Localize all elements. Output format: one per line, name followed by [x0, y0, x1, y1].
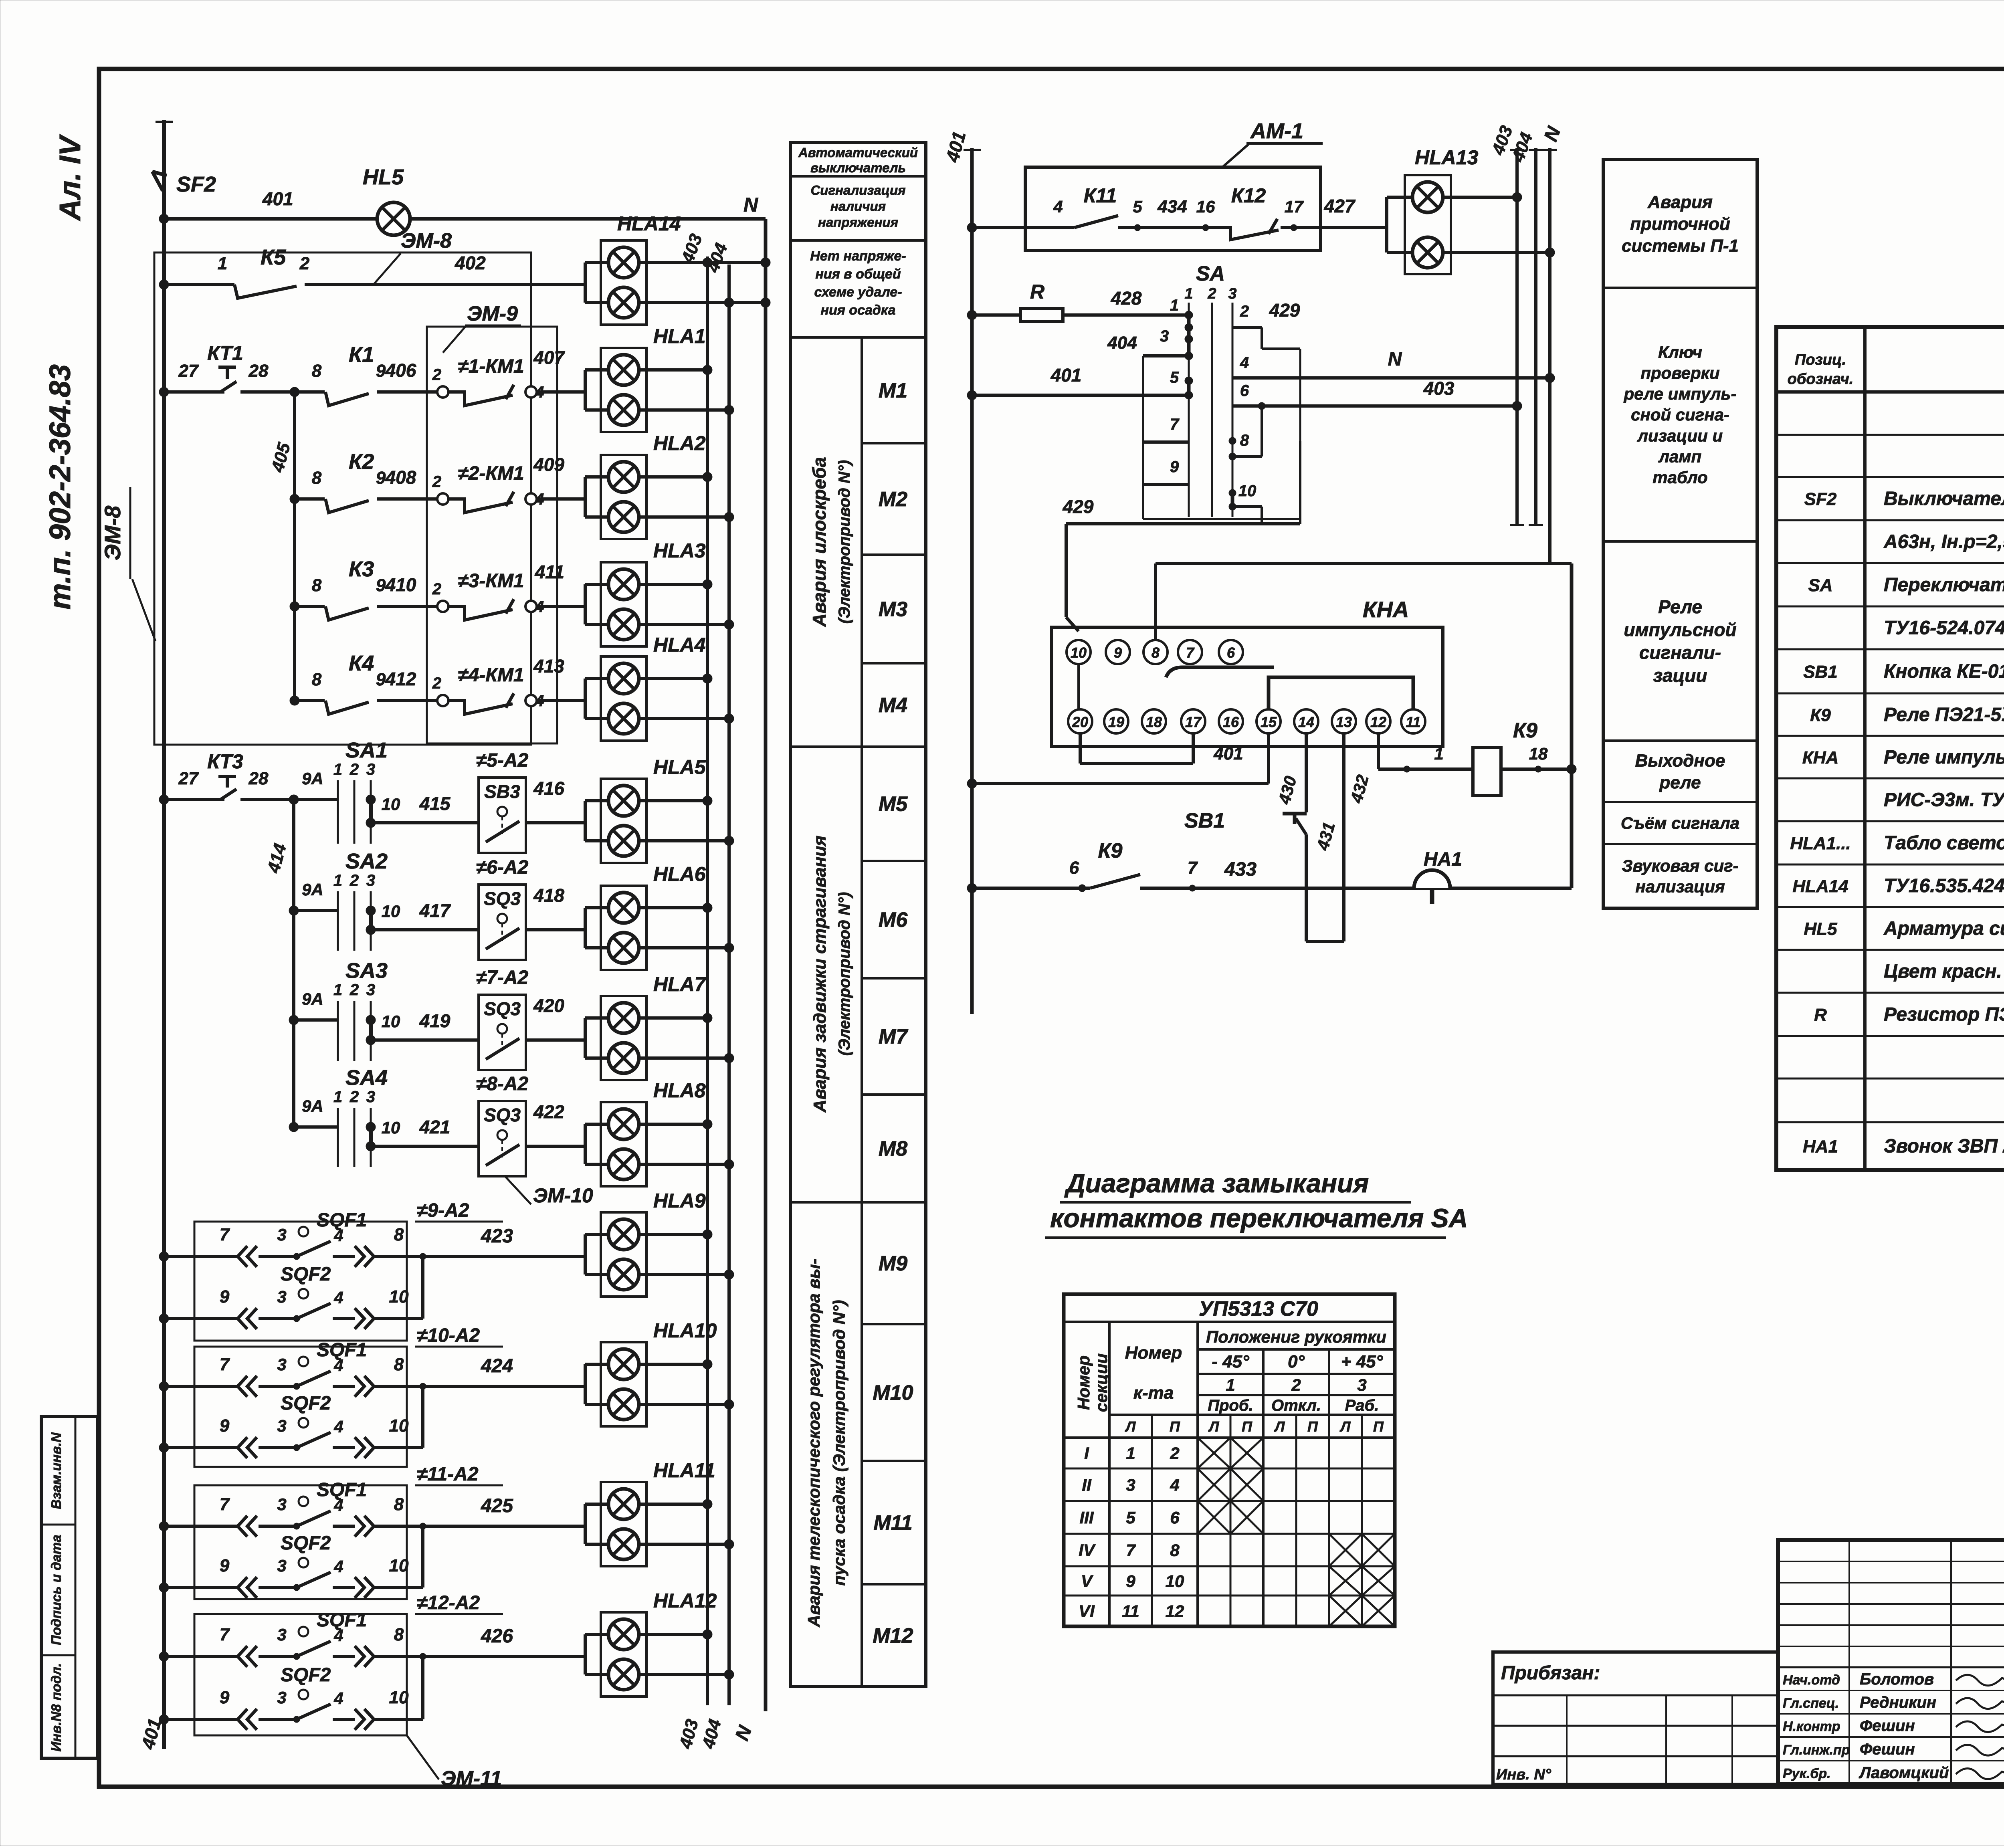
vertical N bus left section [764, 219, 768, 1711]
box AM-1 [1025, 167, 1321, 250]
wires to 403/404 [639, 475, 707, 479]
svg-text:проверки: проверки [1640, 364, 1719, 382]
wires to 403/404 [639, 1503, 707, 1506]
vertical 414 feeder [292, 800, 295, 1127]
svg-text:К9: К9 [1513, 719, 1537, 742]
SA surround box [1142, 485, 1144, 519]
svg-text:Рук.бр.: Рук.бр. [1783, 1766, 1831, 1781]
svg-text:Сигнализация: Сигнализация [810, 183, 905, 198]
svg-text:1: 1 [333, 872, 342, 889]
svg-text:П: П [1170, 1418, 1180, 1435]
KHA pin 14 [1294, 709, 1318, 733]
svg-text:6: 6 [1170, 1508, 1180, 1527]
svg-text:К9: К9 [1810, 705, 1831, 725]
svg-text:Лавомцкий: Лавомцкий [1859, 1764, 1949, 1782]
svg-text:К2: К2 [349, 450, 374, 474]
svg-text:4: 4 [333, 1626, 343, 1645]
svg-text:9: 9 [376, 670, 386, 689]
svg-text:АМ-1: АМ-1 [1250, 119, 1303, 143]
svg-text:Звонок ЗВП 220 ТУ16-739.0: Звонок ЗВП 220 ТУ16-739.059-76 [1884, 1136, 2004, 1157]
selector switch SA2 [289, 906, 299, 915]
switch SQF1 row [159, 1652, 169, 1661]
svg-text:16: 16 [1196, 197, 1215, 216]
svg-text:контактов переключателя SА: контактов переключателя SА [1050, 1203, 1468, 1233]
wires to 403/404 [639, 906, 707, 909]
svg-text:Ал. IV: Ал. IV [53, 134, 87, 221]
svg-text:2: 2 [349, 981, 359, 999]
svg-text:406: 406 [385, 360, 416, 381]
svg-text:Цвет красн. ТУ 16.535.417-75: Цвет красн. ТУ 16.535.417-75 [1884, 961, 2004, 982]
vertical 403 line left section [706, 256, 709, 1705]
X marks [1198, 1438, 1230, 1468]
svg-text:SQ3: SQ3 [484, 1105, 521, 1125]
svg-text:3: 3 [277, 1495, 286, 1514]
svg-text:Проб.: Проб. [1208, 1397, 1253, 1414]
wire 424 [423, 1385, 585, 1388]
indicator panel HLA7 [601, 996, 646, 1080]
svg-text:Инв. N°: Инв. N° [1496, 1766, 1551, 1783]
svg-text:SF2: SF2 [176, 172, 216, 196]
lamp top HLA3 [584, 584, 587, 624]
svg-text:3: 3 [277, 1625, 286, 1644]
svg-text:429: 429 [1269, 300, 1300, 321]
svg-text:К11: К11 [1084, 184, 1117, 207]
svg-text:434: 434 [1157, 197, 1187, 216]
svg-text:427: 427 [1324, 196, 1356, 216]
svg-text:КНА: КНА [1363, 597, 1409, 622]
svg-text:433: 433 [1224, 859, 1257, 880]
svg-text:обознач.: обознач. [1788, 371, 1854, 388]
travel switch group ≠10-А2 [194, 1347, 407, 1467]
svg-text:HLA8: HLA8 [653, 1079, 706, 1102]
time relay contact KT1 [159, 387, 169, 397]
switch SQF2 row [159, 1314, 169, 1323]
svg-text:Л: Л [1125, 1418, 1136, 1435]
bell HA1 [1414, 870, 1450, 888]
svg-text:1: 1 [218, 254, 227, 273]
svg-text:2: 2 [432, 473, 441, 491]
svg-text:412: 412 [385, 669, 416, 689]
svg-text:П: П [1373, 1418, 1384, 1435]
svg-text:10: 10 [389, 1287, 409, 1307]
svg-text:SQ3: SQ3 [484, 998, 521, 1019]
switch SQF2 row [159, 1583, 169, 1592]
wires to 403/404 [639, 1123, 707, 1126]
svg-text:7: 7 [1170, 416, 1180, 433]
lamp bottom HLA1 [608, 395, 639, 425]
svg-text:ЭМ-8: ЭМ-8 [401, 229, 452, 252]
wire 429 down to KHA [1299, 441, 1301, 524]
svg-text:404: 404 [1107, 333, 1137, 353]
svg-text:УП5313 С70: УП5313 С70 [1199, 1297, 1318, 1321]
svg-text:I: I [1084, 1444, 1089, 1463]
top bus 401 to N [164, 217, 766, 221]
svg-text:HLA12: HLA12 [653, 1589, 717, 1612]
svg-text:10: 10 [1238, 482, 1257, 500]
svg-text:N: N [743, 194, 758, 216]
svg-text:Авария задвижки страгивания: Авария задвижки страгивания [810, 836, 830, 1113]
KHA pin 15 [1257, 709, 1281, 733]
svg-text:ния в общей: ния в общей [815, 267, 901, 282]
svg-text:HLA10: HLA10 [653, 1319, 717, 1342]
svg-text:9: 9 [376, 361, 386, 381]
svg-text:1: 1 [1226, 1375, 1235, 1394]
signal row 433 with contact K9 and bell HA1 [972, 887, 1090, 890]
svg-text:425: 425 [481, 1495, 513, 1517]
auxiliary contact ≠1-КМ1 [437, 386, 448, 398]
svg-text:(Электропривод N°): (Электропривод N°) [836, 892, 853, 1056]
lamp bottom HLA3 [608, 609, 639, 640]
svg-text:IV: IV [1079, 1541, 1096, 1560]
svg-text:К12: К12 [1231, 184, 1266, 207]
svg-text:9: 9 [220, 1287, 230, 1307]
contact К2 row [290, 494, 299, 504]
limit switch box SВ3 ≠5-А2 [479, 778, 526, 853]
svg-text:HLA4: HLA4 [653, 634, 706, 656]
svg-text:Раб.: Раб. [1345, 1397, 1379, 1414]
lamp bottom HLA11 [608, 1529, 639, 1559]
wire 421 [371, 1145, 479, 1148]
join vertical [421, 1256, 424, 1319]
svg-text:реле импуль-: реле импуль- [1624, 384, 1737, 403]
svg-text:SA2: SA2 [345, 849, 388, 873]
KHA pin 11 [1401, 709, 1425, 733]
svg-text:сной сигна-: сной сигна- [1631, 405, 1729, 424]
svg-text:402: 402 [455, 252, 486, 273]
svg-text:11: 11 [1122, 1602, 1139, 1621]
box EM-8 [154, 252, 531, 745]
svg-text:4: 4 [333, 1356, 343, 1375]
svg-text:3: 3 [1357, 1375, 1366, 1394]
svg-text:8: 8 [1151, 644, 1160, 661]
svg-text:Номер: Номер [1125, 1343, 1182, 1363]
box EM-9 [427, 327, 557, 743]
lamp top HLA5 [584, 801, 587, 841]
svg-text:11: 11 [1406, 714, 1420, 730]
svg-text:Реле: Реле [1658, 596, 1702, 617]
svg-text:Откл.: Откл. [1271, 1397, 1321, 1414]
lamp top HLA10 [584, 1364, 587, 1404]
svg-text:лизации и: лизации и [1637, 426, 1723, 445]
resistor R [972, 313, 1020, 317]
svg-text:V: V [1081, 1572, 1093, 1591]
svg-text:5: 5 [1133, 197, 1142, 216]
auxiliary contact ≠4-КМ1 [437, 695, 448, 706]
lamp HL5 [377, 202, 410, 235]
svg-text:SВ1: SВ1 [1803, 662, 1838, 682]
svg-text:12: 12 [1166, 1602, 1184, 1621]
svg-text:401: 401 [1050, 365, 1082, 386]
svg-text:1: 1 [1126, 1444, 1135, 1463]
svg-text:Авария телескопического регуля: Авария телескопического регулятора вы- [804, 1258, 823, 1627]
auxiliary contact ≠3-КМ1 [437, 601, 448, 612]
wires to 403/404 [639, 799, 707, 802]
svg-text:SВ1: SВ1 [1184, 809, 1225, 832]
svg-text:т.п. 902-2-364.83: т.п. 902-2-364.83 [43, 364, 77, 610]
svg-text:≠12-А2: ≠12-А2 [417, 1592, 480, 1614]
svg-text:7: 7 [220, 1355, 230, 1374]
svg-text:Табло световое ТСБ2-У3 220В: Табло световое ТСБ2-У3 220В [1884, 832, 2004, 854]
svg-text:Инв.N8 подл.: Инв.N8 подл. [49, 1663, 64, 1751]
lamp top HLA1 [584, 370, 587, 410]
svg-text:нализация: нализация [1635, 877, 1725, 896]
svg-text:SA4: SA4 [345, 1066, 388, 1090]
svg-text:ЭМ-9: ЭМ-9 [467, 302, 518, 325]
signature row Гл.инж.пр [1778, 1736, 2004, 1738]
svg-text:Авария: Авария [1647, 192, 1713, 212]
svg-text:Автоматический: Автоматический [798, 145, 918, 160]
svg-text:≠1-КМ1: ≠1-КМ1 [458, 356, 524, 377]
switch SQF2 row [159, 1715, 169, 1724]
wires to 403/404 [639, 1363, 707, 1366]
svg-text:7: 7 [1186, 644, 1195, 661]
svg-text:2: 2 [1170, 1444, 1179, 1463]
wire N corner to right bus [1156, 562, 1572, 565]
lamp bottom HLA2 [608, 502, 639, 532]
svg-text:10: 10 [1071, 644, 1087, 661]
svg-text:Реле импульсной сигнализации: Реле импульсной сигнализации [1884, 747, 2004, 768]
impulse relay KHA [1052, 627, 1443, 747]
svg-text:9А: 9А [302, 769, 323, 788]
svg-text:422: 422 [533, 1101, 564, 1122]
svg-text:19: 19 [1108, 714, 1124, 730]
wires to 403/404 [639, 1016, 707, 1020]
svg-text:Гл.инж.пр: Гл.инж.пр [1783, 1743, 1850, 1758]
svg-text:8: 8 [394, 1625, 404, 1644]
svg-text:SВ3: SВ3 [484, 781, 520, 802]
parts list table [1776, 327, 2004, 1170]
svg-text:схеме удале-: схеме удале- [814, 285, 902, 300]
svg-text:Гл.спец.: Гл.спец. [1783, 1696, 1839, 1711]
svg-text:≠8-А2: ≠8-А2 [476, 1073, 529, 1095]
svg-text:3: 3 [277, 1355, 286, 1374]
svg-text:8: 8 [1170, 1541, 1180, 1560]
svg-text:423: 423 [481, 1226, 513, 1247]
relay coil K9 [1378, 767, 1473, 771]
svg-text:импульсной: импульсной [1624, 619, 1736, 640]
limit switch box SQ3 ≠8-А2 [479, 1101, 526, 1176]
svg-text:411: 411 [535, 561, 564, 582]
svg-text:М11: М11 [873, 1511, 912, 1535]
limit switch box SQ3 ≠6-А2 [479, 885, 526, 960]
selector switch SA4 [289, 1122, 299, 1132]
lamp top HLA8 [584, 1124, 587, 1164]
wire 415 [371, 821, 479, 824]
svg-text:VI: VI [1079, 1602, 1095, 1621]
join vertical [421, 1526, 424, 1587]
svg-text:SQ3: SQ3 [484, 888, 521, 909]
lamp bottom HLA4 [608, 703, 639, 734]
indicator panel HLA11 [601, 1482, 646, 1566]
svg-text:4: 4 [1170, 1476, 1179, 1495]
switch SQF1 row [159, 1521, 169, 1531]
svg-text:М10: М10 [873, 1381, 913, 1405]
bus 401 left main vertical [162, 120, 166, 1749]
stamp column boxes bottom-left [41, 1416, 98, 1758]
join vertical [421, 1386, 424, 1448]
switch SQF1 row [159, 1252, 169, 1261]
svg-text:4: 4 [1240, 354, 1249, 372]
svg-text:428: 428 [1111, 288, 1142, 309]
svg-text:Л: Л [1339, 1418, 1351, 1435]
svg-text:Выключатель автоматический: Выключатель автоматический [1884, 488, 2004, 509]
svg-text:2: 2 [349, 1088, 359, 1106]
svg-text:К3: К3 [349, 557, 374, 581]
svg-text:Н.контр: Н.контр [1783, 1719, 1840, 1734]
svg-text:9А: 9А [302, 990, 323, 1008]
indicator panel HLA2 [601, 455, 646, 539]
svg-text:ТУ16.535.424-70: ТУ16.535.424-70 [1884, 875, 2004, 897]
svg-text:7: 7 [220, 1225, 230, 1244]
svg-text:Резистор ПЭВ-10 4700 (ом): Резистор ПЭВ-10 4700 (ом) [1884, 1004, 2004, 1025]
auxiliary contact ≠2-КМ1 [437, 493, 448, 505]
svg-text:2: 2 [1207, 285, 1216, 302]
svg-text:П: П [1242, 1418, 1252, 1435]
svg-text:3: 3 [277, 1225, 286, 1244]
svg-text:0°: 0° [1288, 1352, 1305, 1371]
wire 432 [1377, 733, 1380, 769]
svg-text:401: 401 [262, 188, 293, 209]
svg-text:К1: К1 [349, 343, 374, 367]
lamp top HLA12 [584, 1634, 587, 1674]
svg-text:8: 8 [312, 361, 322, 381]
svg-text:К9: К9 [1098, 839, 1123, 862]
contact closure table [1064, 1294, 1395, 1626]
svg-text:Фешин: Фешин [1860, 1717, 1915, 1735]
svg-text:3: 3 [277, 1556, 286, 1575]
svg-text:HLA11: HLA11 [653, 1459, 715, 1482]
svg-text:3: 3 [366, 981, 375, 999]
svg-text:К5: К5 [261, 245, 286, 269]
svg-text:+ 45°: + 45° [1341, 1352, 1383, 1371]
svg-text:8: 8 [394, 1225, 404, 1244]
wire 431 [1342, 733, 1345, 941]
svg-text:к-та: к-та [1133, 1383, 1174, 1403]
join vertical [421, 1656, 424, 1719]
svg-text:Звуковая сиг-: Звуковая сиг- [1622, 856, 1738, 875]
svg-text:401: 401 [1213, 744, 1243, 763]
svg-text:≠7-А2: ≠7-А2 [476, 967, 529, 988]
KHA pin 13 [1332, 709, 1356, 733]
KHA pin 17 [1181, 709, 1205, 733]
svg-text:SА: SА [1196, 262, 1225, 285]
svg-text:М7: М7 [879, 1025, 908, 1048]
verticals 403 404 N middle [1515, 148, 1519, 525]
svg-text:- 45°: - 45° [1212, 1352, 1249, 1371]
svg-text:Кнопка КЕ-011У3 Исп.2 ТУ16-526: Кнопка КЕ-011У3 Исп.2 ТУ16-526.407-76 [1884, 661, 2004, 682]
svg-text:HLA7: HLA7 [653, 973, 707, 996]
bus 401 middle vertical [970, 148, 974, 1014]
svg-text:М8: М8 [879, 1137, 907, 1161]
wires to 403/404 [639, 368, 707, 372]
indicator panel HLA4 [601, 656, 646, 741]
svg-text:R: R [1814, 1005, 1827, 1025]
svg-text:М5: М5 [879, 793, 908, 816]
svg-text:Редникин: Редникин [1860, 1694, 1936, 1711]
svg-text:≠6-А2: ≠6-А2 [476, 857, 529, 878]
svg-text:10: 10 [389, 1556, 409, 1575]
SA pin stubs left [1143, 354, 1189, 357]
svg-text:HLA2: HLA2 [653, 432, 706, 454]
svg-text:5: 5 [1170, 369, 1179, 386]
SA pin stubs right / wires [1232, 326, 1262, 329]
svg-text:наличия: наличия [830, 199, 886, 214]
wires to 403/404 [639, 1233, 707, 1236]
svg-text:ЭМ-8: ЭМ-8 [100, 505, 125, 561]
svg-text:27: 27 [178, 769, 199, 788]
switch SQF2 row [159, 1443, 169, 1452]
svg-text:2: 2 [432, 675, 441, 692]
svg-text:М3: М3 [879, 598, 907, 621]
travel switch group ≠11-А2 [194, 1485, 407, 1599]
svg-text:419: 419 [419, 1010, 450, 1031]
svg-text:приточной: приточной [1630, 214, 1730, 234]
indicator panel HLA5 [601, 779, 646, 863]
svg-text:8: 8 [312, 576, 322, 595]
svg-text:НА1: НА1 [1424, 849, 1462, 870]
svg-text:HLA13: HLA13 [1415, 146, 1479, 169]
svg-text:18: 18 [1529, 744, 1548, 763]
svg-text:4: 4 [333, 1226, 343, 1245]
svg-text:≠3-КМ1: ≠3-КМ1 [458, 570, 524, 592]
KHA pin 6 [1219, 640, 1243, 664]
svg-text:КТ3: КТ3 [207, 750, 243, 773]
svg-text:зации: зации [1653, 665, 1707, 686]
svg-text:16: 16 [1223, 714, 1239, 730]
svg-text:Переключатель УП5313 С70: Переключатель УП5313 С70 [1884, 574, 2004, 596]
svg-text:7: 7 [220, 1625, 230, 1644]
svg-text:≠11-А2: ≠11-А2 [417, 1464, 479, 1485]
svg-text:≠5-А2: ≠5-А2 [476, 750, 529, 771]
svg-text:Позиц.: Позиц. [1795, 351, 1846, 368]
lamp bottom HLA10 [608, 1389, 639, 1420]
svg-text:9: 9 [376, 468, 386, 488]
lamp top HLA9 [584, 1234, 587, 1274]
svg-text:R: R [1030, 281, 1044, 303]
lamp bottom HLA8 [608, 1149, 639, 1179]
svg-text:3: 3 [366, 761, 375, 778]
svg-text:27: 27 [178, 361, 199, 381]
svg-text:3: 3 [1126, 1476, 1135, 1495]
svg-text:9А: 9А [302, 880, 323, 899]
svg-text:(Электропривод N°): (Электропривод N°) [836, 460, 853, 624]
svg-text:20: 20 [1072, 714, 1088, 730]
svg-text:13: 13 [1336, 714, 1352, 730]
travel switch group ≠12-А2 [194, 1614, 407, 1735]
svg-text:407: 407 [533, 347, 565, 368]
svg-text:4: 4 [1053, 197, 1063, 216]
indicator HLA13 [1405, 175, 1451, 274]
svg-text:≠10-А2: ≠10-А2 [417, 1325, 480, 1346]
svg-text:408: 408 [385, 467, 416, 488]
svg-text:9: 9 [1126, 1572, 1135, 1591]
svg-text:напряжения: напряжения [818, 215, 898, 230]
lamp top HLA4 [584, 679, 587, 719]
svg-text:SQF2: SQF2 [281, 1533, 331, 1554]
svg-text:2: 2 [1240, 303, 1249, 320]
KHA pin 20-17 lower jumper [1079, 733, 1082, 763]
time relay contact KT3 [159, 795, 169, 804]
svg-text:SA3: SA3 [345, 959, 388, 983]
svg-text:HLA3: HLA3 [653, 539, 706, 562]
svg-text:9: 9 [1170, 458, 1179, 476]
lamp top HLA2 [584, 477, 587, 517]
svg-text:410: 410 [385, 574, 416, 595]
svg-text:системы П-1: системы П-1 [1622, 236, 1739, 256]
vertical 404 line left section [727, 265, 731, 1705]
wire 423 [423, 1255, 585, 1258]
svg-text:РИС-Э3м. ТУ16-523.311-70: РИС-Э3м. ТУ16-523.311-70 [1884, 790, 2004, 811]
